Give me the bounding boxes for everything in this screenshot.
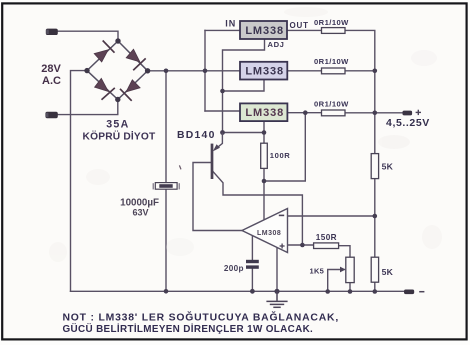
wire op-amp output to Q1 base bbox=[193, 163, 242, 231]
wire bottom ground rail bbox=[71, 290, 405, 292]
junction dot ADJ bus / emitter node bbox=[220, 130, 225, 135]
svg-text:35A: 35A bbox=[106, 119, 129, 131]
junction dot 5K bottom on ground rail bbox=[373, 289, 378, 294]
ground symbol bbox=[266, 291, 287, 307]
label C1 value 10000µF 63V bbox=[120, 198, 159, 218]
wire U1 OUT to R1 bbox=[287, 29, 322, 31]
wire IN bus vertical bbox=[204, 30, 206, 111]
wire output plus terminal feed bbox=[375, 112, 403, 114]
svg-text:150R: 150R bbox=[316, 233, 337, 242]
svg-text:0R1/10W: 0R1/10W bbox=[314, 18, 349, 27]
svg-text:0R1/10W: 0R1/10W bbox=[314, 57, 349, 66]
transistor Q1 emitter with arrow bbox=[215, 133, 223, 150]
regulator U2 LM338 bbox=[240, 62, 287, 80]
terminal AC input bottom bbox=[45, 112, 57, 118]
svg-text:IN: IN bbox=[225, 19, 236, 29]
svg-text:ADJ: ADJ bbox=[268, 40, 285, 49]
junction dot R4 bottom node bbox=[262, 179, 267, 184]
wire U1 IN bbox=[205, 29, 240, 31]
op-amp U4 LM308 triangle bbox=[242, 209, 288, 253]
wire U3 ADJ down bbox=[263, 121, 265, 143]
wire U3 OUT to R3 bbox=[287, 112, 321, 114]
wire U2 ADJ to ADJ bus bbox=[223, 80, 265, 92]
wire op-amp V+ pin bbox=[263, 181, 265, 220]
svg-text:LM308: LM308 bbox=[257, 230, 281, 237]
wire output rail middle segment bbox=[374, 179, 376, 258]
wire R2 to output rail bbox=[345, 70, 375, 72]
svg-text:NOT : LM338' LER SOĞUTUCUYA BA: NOT : LM338' LER SOĞUTUCUYA BAĞLANACAK, bbox=[63, 311, 340, 324]
junction dot positive net / cap branch bbox=[164, 69, 169, 74]
label 35A KÖPRÜ DİYOT bbox=[83, 119, 157, 143]
resistor R1 0R1/10W body bbox=[322, 28, 346, 34]
stray scan mark bbox=[179, 165, 181, 169]
resistor R6 5K upper body bbox=[371, 154, 378, 179]
svg-text:OUT: OUT bbox=[290, 21, 309, 30]
junction dot ADJ bus / U2 ADJ bbox=[220, 89, 225, 94]
wire compensation cap branch bbox=[251, 236, 253, 292]
transistor Q1 BD140 base bar bbox=[211, 144, 214, 179]
pin mark inverting input bbox=[279, 214, 284, 216]
resistor R3 0R1/10W body bbox=[322, 110, 346, 116]
diode D4 bottom-right of bridge bbox=[120, 80, 140, 101]
capacitor C2 200p plates bbox=[246, 260, 259, 269]
wire output rail bottom segment bbox=[374, 282, 376, 291]
junction dot rail/R3 join bbox=[373, 111, 378, 116]
diode D2 top-right of bridge bbox=[126, 49, 146, 70]
wire Q1 collector to op-amp input node bbox=[213, 171, 303, 245]
svg-text:GÜCÜ BELİRTİLMEYEN DİRENÇLER 1: GÜCÜ BELİRTİLMEYEN DİRENÇLER 1W OLACAK. bbox=[63, 324, 314, 335]
resistor R5 150R body bbox=[314, 243, 339, 249]
node dot bridge right bbox=[145, 68, 150, 73]
wire ADJ bus to Q1 emitter node bbox=[223, 132, 265, 134]
svg-text:LM338: LM338 bbox=[245, 107, 284, 119]
wire negative rail from bridge left node bbox=[71, 71, 88, 292]
svg-text:5K: 5K bbox=[382, 267, 394, 277]
bridge rectifier BR1 diamond bbox=[87, 41, 148, 100]
svg-text:0R1/10W: 0R1/10W bbox=[314, 99, 349, 108]
junction dot U3 OUT sense bbox=[303, 110, 308, 115]
wire AC input bottom bbox=[58, 100, 118, 115]
potentiometer P1 wiper arrow bbox=[340, 267, 346, 273]
junction dot cap branch on ground rail bbox=[164, 289, 169, 294]
svg-text:200p: 200p bbox=[224, 264, 244, 273]
regulator U1 LM338 bbox=[240, 21, 287, 39]
junction dot positive net / IN bus bbox=[203, 69, 208, 74]
junction dot P1 bottom on ground rail bbox=[348, 289, 353, 294]
junction dot rail/R1R2 join bbox=[373, 69, 378, 74]
resistor R7 5K lower body bbox=[371, 257, 378, 282]
svg-text:LM338: LM338 bbox=[245, 25, 284, 37]
svg-text:63V: 63V bbox=[132, 208, 148, 218]
resistor R2 0R1/10W body bbox=[322, 68, 346, 74]
wire R4 bottom to node bbox=[263, 168, 265, 181]
node dot bridge top bbox=[115, 38, 120, 43]
pin mark non-inverting input bbox=[280, 244, 285, 249]
wire op-amp inverting input to divider bbox=[288, 215, 375, 217]
junction dot U3 ADJ / R4 top bbox=[262, 130, 267, 135]
wire filter capacitor branch bbox=[165, 71, 167, 291]
svg-text:LM338: LM338 bbox=[245, 65, 284, 77]
wire U2 OUT to R2 bbox=[287, 70, 321, 72]
wire AC input top bbox=[58, 31, 119, 41]
svg-text:BD140: BD140 bbox=[177, 130, 216, 141]
resistor R4 100R body bbox=[261, 143, 268, 168]
svg-text:KÖPRÜ DİYOT: KÖPRÜ DİYOT bbox=[83, 130, 157, 143]
wire R5 to P1 top bbox=[339, 246, 350, 258]
wire R3 to output rail bbox=[345, 112, 375, 114]
label 28V A.C bbox=[41, 63, 61, 87]
junction dot ground symbol node bbox=[274, 289, 279, 294]
wire node to U3 OUT junction bbox=[264, 113, 305, 181]
diode D3 bottom-left of bridge bbox=[95, 78, 115, 99]
svg-text:A.C: A.C bbox=[42, 75, 61, 87]
capacitor C1 10000uF 63V electrolytic bbox=[153, 183, 179, 190]
svg-text:100R: 100R bbox=[270, 151, 291, 160]
svg-text:1K5: 1K5 bbox=[310, 267, 325, 276]
wire op-amp V- to ground rail bbox=[276, 247, 278, 291]
terminal output minus bbox=[404, 290, 424, 295]
svg-text:28V: 28V bbox=[41, 63, 61, 75]
wire op-amp non-inverting input bbox=[288, 244, 314, 246]
terminal AC input top bbox=[46, 29, 58, 35]
wire U3 IN bbox=[205, 110, 240, 112]
wire positive net bridge right node to LM338 IN bus bbox=[148, 70, 240, 72]
regulator U3 LM338 bbox=[240, 103, 287, 121]
junction dot op-amp + input node bbox=[300, 243, 305, 248]
junction dot wiper on ground rail bbox=[325, 289, 330, 294]
svg-text:4,5..25V: 4,5..25V bbox=[386, 117, 430, 129]
terminal output plus bbox=[403, 110, 422, 116]
node dot bridge left bbox=[84, 68, 89, 73]
wire R1 to output rail bbox=[345, 30, 375, 153]
junction dot divider mid bbox=[373, 214, 378, 219]
svg-text:5K: 5K bbox=[382, 161, 394, 171]
wire U1 ADJ to ADJ bus bbox=[223, 39, 265, 133]
wire P1 wiper to rail bbox=[328, 270, 344, 292]
junction dot C2 on ground rail bbox=[250, 289, 255, 294]
node dot bridge bottom bbox=[115, 97, 120, 102]
potentiometer P1 1K5 body bbox=[346, 257, 354, 282]
diode D1 top-left of bridge bbox=[94, 41, 114, 62]
wire P1 bottom to rail bbox=[349, 283, 351, 292]
